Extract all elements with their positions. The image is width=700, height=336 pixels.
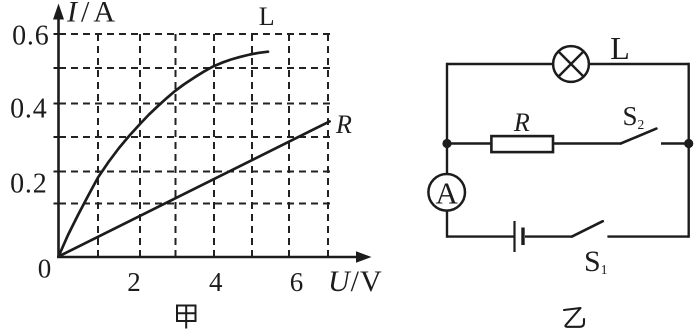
svg-text:U/V: U/V (328, 265, 383, 298)
svg-text:2: 2 (127, 267, 141, 297)
svg-text:6: 6 (290, 267, 304, 297)
svg-text:I/A: I/A (66, 0, 119, 29)
svg-text:S1: S1 (584, 245, 607, 278)
svg-text:0.4: 0.4 (10, 94, 47, 125)
svg-text:A: A (436, 175, 459, 210)
svg-text:L: L (259, 2, 275, 31)
svg-text:S2: S2 (623, 101, 645, 132)
svg-text:R: R (513, 108, 530, 137)
svg-text:L: L (610, 30, 630, 66)
svg-text:0.2: 0.2 (10, 169, 47, 200)
svg-text:0.6: 0.6 (12, 21, 49, 52)
svg-text:R: R (335, 110, 352, 139)
svg-text:4: 4 (209, 267, 223, 297)
svg-text:0: 0 (38, 254, 52, 284)
